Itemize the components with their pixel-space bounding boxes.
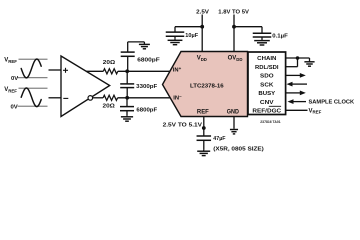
svg-text:REF/DGC: REF/DGC [252, 108, 282, 114]
svg-text:10µF: 10µF [185, 33, 198, 39]
svg-text:CNV: CNV [260, 100, 274, 106]
svg-text:0V: 0V [11, 76, 18, 82]
svg-text:REF: REF [197, 110, 209, 116]
svg-text:47µF: 47µF [213, 136, 226, 142]
svg-text:VREF: VREF [4, 87, 17, 93]
svg-text:20Ω: 20Ω [103, 104, 116, 110]
svg-text:237816 TA01: 237816 TA01 [260, 120, 280, 124]
svg-text:2.5V: 2.5V [196, 9, 209, 15]
svg-text:GND: GND [227, 110, 240, 116]
svg-text:RDL/SDI: RDL/SDI [255, 65, 279, 71]
svg-text:OVDD: OVDD [228, 56, 243, 62]
svg-text:(X5R, 0805 SIZE): (X5R, 0805 SIZE) [213, 147, 264, 153]
svg-text:6800pF: 6800pF [136, 107, 157, 113]
svg-text:VREF: VREF [4, 58, 17, 64]
svg-text:3300pF: 3300pF [136, 84, 157, 90]
svg-text:20Ω: 20Ω [103, 60, 116, 66]
svg-text:BUSY: BUSY [258, 91, 275, 97]
svg-text:0.1µF: 0.1µF [272, 33, 288, 39]
svg-text:CHAIN: CHAIN [257, 56, 276, 62]
svg-text:6800pF: 6800pF [137, 57, 160, 63]
svg-text:LTC2378-16: LTC2378-16 [190, 84, 224, 90]
svg-text:SDO: SDO [260, 74, 274, 80]
svg-text:SAMPLE CLOCK: SAMPLE CLOCK [309, 100, 355, 106]
svg-text:2.5V TO 5.1V: 2.5V TO 5.1V [163, 122, 202, 128]
svg-text:1.8V TO 5V: 1.8V TO 5V [218, 9, 249, 15]
svg-text:VREF: VREF [309, 108, 322, 114]
svg-text:VDD: VDD [197, 56, 207, 62]
svg-text:SCK: SCK [260, 82, 274, 88]
svg-text:0V: 0V [11, 105, 18, 111]
